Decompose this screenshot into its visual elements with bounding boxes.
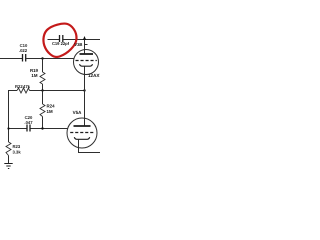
wire: V3B cathode lead down: [84, 67, 86, 91]
wire: plate lead into V3B: [85, 40, 88, 55]
svg-text:.047: .047: [24, 120, 33, 125]
svg-text:R23: R23: [13, 144, 21, 149]
wire: R19 top lead: [42, 59, 44, 73]
resistor R24: [40, 104, 55, 117]
capacitor C19: [52, 35, 70, 46]
tube V3B plate: [80, 53, 94, 55]
svg-text:R24: R24: [47, 104, 56, 109]
red annotation circle around C19: [43, 24, 76, 57]
capacitor C10: [19, 43, 28, 62]
wire: R24 bottom lead: [42, 117, 44, 129]
wire: main input wire to V3B grid: [0, 58, 74, 60]
ground: [4, 164, 12, 169]
node: junction left bus / C20: [7, 127, 9, 129]
tube V3B grid: [76, 60, 97, 62]
svg-text:.022: .022: [19, 48, 28, 53]
wire: left bus down from R22: [8, 90, 10, 142]
tube V3B envelope: [74, 50, 99, 75]
wire: R23 to ground: [8, 156, 10, 164]
node: junction R19 / R24 / bus: [41, 89, 43, 91]
wire: V3B cathode to V5A plate: [84, 91, 86, 127]
resistor R19: [30, 68, 45, 84]
svg-text:1M: 1M: [31, 73, 37, 78]
wire: R19 bottom lead: [42, 84, 44, 91]
capacitor C20: [24, 115, 33, 132]
node: junction bus / V3B cathode lead: [83, 89, 85, 91]
svg-text:47k: 47k: [23, 84, 31, 89]
svg-text:12AX7: 12AX7: [88, 73, 100, 78]
wire: cathode bus from left bus to V3B cathode: [9, 90, 85, 92]
wire: C20 wire from left bus to V5A grid: [9, 128, 69, 130]
tube V5A plate: [74, 125, 91, 127]
node: plate arrow junction: [83, 36, 86, 40]
svg-text:3.3k: 3.3k: [13, 150, 22, 155]
node: junction main wire / R19: [41, 57, 43, 59]
wire: C19 branch wire to V3B plate: [48, 39, 101, 41]
tube V5A grid: [70, 132, 94, 134]
wire: R24 top lead: [42, 91, 44, 105]
svg-text:C19 22pf: C19 22pf: [52, 41, 70, 46]
tube V3B cathode: [80, 64, 93, 66]
tube V5A cathode: [74, 137, 89, 139]
svg-text:V5A: V5A: [73, 110, 83, 115]
node: junction R24 / C20 wire: [41, 127, 43, 129]
tube V5A envelope: [67, 118, 97, 148]
resistor R22: [15, 84, 31, 93]
svg-text:V3B: V3B: [74, 42, 82, 47]
svg-text:1M: 1M: [47, 109, 53, 114]
wire: V5A cathode lead: [79, 139, 101, 152]
resistor R23: [6, 142, 21, 156]
